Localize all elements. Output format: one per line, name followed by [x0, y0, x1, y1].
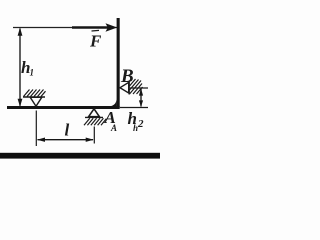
svg-text:h: h: [133, 123, 138, 133]
roller support B: triangle: [120, 79, 143, 95]
force F arrow: [72, 23, 117, 32]
l dimension line: [38, 139, 94, 141]
left hanger support: triangle: [30, 97, 42, 106]
fillet at corner: [109, 98, 117, 106]
member: vertical bar: [117, 18, 120, 108]
pin support A: base line: [85, 116, 103, 118]
svg-text:l: l: [65, 121, 70, 140]
left hanger support: base line: [23, 90, 46, 107]
left hanger support: hatching: [24, 90, 30, 97]
member: bottom beam: [7, 106, 120, 109]
top reference line: [13, 27, 117, 29]
svg-text:A: A: [110, 123, 117, 133]
svg-text:2: 2: [137, 118, 144, 130]
svg-text:1: 1: [30, 68, 35, 78]
h2 dimension: bottom extension line: [120, 107, 148, 109]
pin support A: hatching: [84, 118, 90, 125]
roller support B: hatching: [130, 79, 136, 86]
label F with overbar: [89, 30, 102, 50]
ghost print-through marks: [110, 123, 138, 133]
roller support B: base line: [128, 81, 130, 95]
h1 dimension line: [18, 28, 23, 107]
h2 dimension line: [140, 89, 142, 107]
pin support A: triangle: [84, 109, 106, 125]
label h1: [21, 58, 34, 78]
svg-text:F: F: [89, 32, 102, 51]
label h2: [128, 109, 145, 130]
svg-text:B: B: [120, 66, 134, 87]
bottom black band: [0, 153, 160, 159]
l dimension: right extension line: [93, 127, 95, 144]
l dimension: left extension line: [36, 111, 94, 147]
h2 dimension: top extension line: [120, 88, 148, 108]
